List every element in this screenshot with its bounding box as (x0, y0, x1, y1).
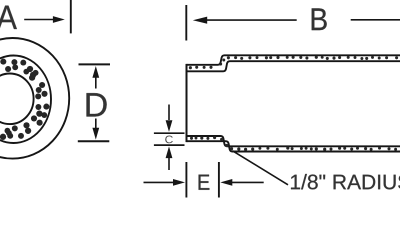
extension line for B left (185, 5, 187, 41)
dimension C top bar (154, 132, 185, 134)
label B (312, 8, 327, 30)
dimension A arrow (24, 16, 65, 23)
dimension E right arrow (220, 179, 263, 186)
hose end view: inner circle (bore) (0, 74, 34, 125)
dimension E left arrow (144, 179, 186, 186)
dimension B left arrow (193, 17, 297, 24)
stipple dots along tube bottom wall (190, 136, 397, 151)
tube bottom wall inner line with step (187, 136, 400, 146)
dimension D top bar (79, 63, 111, 65)
dimension D down arrow (92, 119, 99, 140)
tube left end cap (186, 64, 188, 142)
tube bottom wall outer line with step (187, 141, 400, 151)
tube top wall outer line with step (187, 55, 400, 65)
dimension D bottom bar (78, 140, 110, 142)
dimension D up arrow (92, 66, 99, 89)
dimension C down arrow (166, 105, 173, 132)
tube top wall inner line with step (187, 61, 400, 71)
hose end view: middle circle (0, 56, 51, 144)
extension line for A (70, 0, 72, 33)
label 1/8" RADIUS (291, 174, 400, 189)
dimension C bottom bar (154, 144, 185, 146)
stipple dots along tube top wall (189, 56, 398, 70)
label D (87, 93, 107, 116)
hose end view: outer circle (0, 38, 69, 159)
leader line for radius callout (233, 151, 289, 185)
extension line E left (185, 162, 187, 198)
label C (165, 136, 173, 144)
extension line E right (218, 162, 220, 198)
dimension B right shaft (351, 19, 400, 21)
stipple dots in hose wall band (0, 59, 49, 140)
label A (0, 6, 17, 29)
dimension C up arrow (166, 146, 173, 170)
label E (199, 175, 210, 190)
